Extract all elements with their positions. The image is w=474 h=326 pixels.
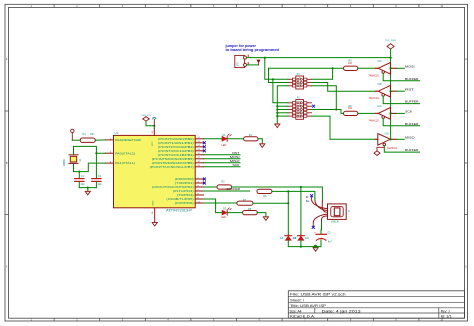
svg-text:BUFFER: BUFFER [227,187,241,191]
svg-text:Id: 1/1: Id: 1/1 [441,315,452,319]
svg-text:(RXD/PD0): (RXD/PD0) [175,177,194,181]
svg-text:MOSI: MOSI [230,155,240,159]
svg-text:(PCINT1/AIN1/PB1): (PCINT1/AIN1/PB1) [158,141,194,145]
svg-text:JP1: JP1 [237,61,240,66]
svg-text:LED: LED [221,216,226,219]
svg-text:(PCINT6/MISO/DO/PB6): (PCINT6/MISO/DO/PB6) [152,161,194,165]
svg-text:KiCad E.D.A.: KiCad E.D.A. [290,315,315,319]
svg-text:D-: D- [306,196,309,199]
svg-text:to board being programmed: to board being programmed [226,48,280,52]
svg-text:(PCINT3/OC1A/PB3): (PCINT3/OC1A/PB3) [158,149,194,153]
svg-text:MISO: MISO [230,159,240,163]
svg-text:U1D: U1D [384,132,389,135]
svg-text:BUFFER: BUFFER [405,77,419,81]
svg-text:C: C [465,265,467,268]
svg-text:MISO: MISO [405,136,415,140]
svg-text:Sheet: /: Sheet: / [290,298,305,302]
svg-text:SCK: SCK [405,110,413,114]
svg-text:U1B: U1B [377,83,382,86]
svg-text:(PCINT7/UCSK/SCL/PB7): (PCINT7/UCSK/SCL/PB7) [150,165,194,169]
svg-text:BUFFER: BUFFER [405,122,419,126]
svg-text:SCK: SCK [232,163,240,167]
svg-text:TGT_PWR: TGT_PWR [385,40,396,42]
svg-text:MOSI: MOSI [405,65,415,69]
svg-text:(INT1/PD3): (INT1/PD3) [173,189,194,193]
svg-text:U1C: U1C [377,105,382,108]
svg-text:jumper for power: jumper for power [224,44,256,48]
svg-text:ATTINY2313-P: ATTINY2313-P [166,208,192,212]
svg-text:Title: USB AVR ISP: Title: USB AVR ISP [290,304,326,308]
svg-text:Size: A4: Size: A4 [290,309,302,313]
svg-text:USB_B: USB_B [331,221,339,223]
svg-text:(PCINT4/OC1B/PB4): (PCINT4/OC1B/PB4) [158,153,194,157]
svg-text:10K: 10K [90,134,95,136]
svg-text:PA2(RESET)/dW: PA2(RESET)/dW [115,138,141,142]
svg-text:(PCINT2/OC0A/PB2): (PCINT2/OC0A/PB2) [158,145,194,149]
svg-text:Date: 4 jan 2013: Date: 4 jan 2013 [322,309,361,313]
svg-text:(ICP/PD6): (ICP/PD6) [175,201,194,205]
svg-text:BUFFER: BUFFER [405,100,419,104]
svg-text:LED: LED [222,144,227,147]
svg-text:(TXD/PD1): (TXD/PD1) [175,181,194,185]
svg-text:USB_5V0: USB_5V0 [141,115,151,117]
svg-text:(PCINT5/MOSI/DI/PB5): (PCINT5/MOSI/DI/PB5) [152,157,194,161]
svg-text:BUFFER: BUFFER [405,148,419,152]
svg-text:RST.: RST. [405,88,415,92]
svg-text:U3: U3 [115,131,119,135]
svg-text:(CKOUT/XCK/INT0/PD2): (CKOUT/XCK/INT0/PD2) [152,185,194,189]
svg-text:(PCINT0/AIN0/PB0): (PCINT0/AIN0/PB0) [158,137,194,141]
svg-text:12MHz: 12MHz [64,158,66,166]
svg-text:RST: RST [232,151,239,155]
svg-text:(T0/PD4): (T0/PD4) [177,193,194,197]
svg-text:File: USB AVR ISP v2.sch: File: USB AVR ISP v2.sch [290,293,346,297]
svg-text:(OC0B/T1/PD5): (OC0B/T1/PD5) [166,197,193,201]
svg-text:U1A: U1A [377,60,382,63]
svg-text:C: C [6,265,8,268]
svg-text:VCC: VCC [152,141,154,146]
svg-text:GND: GND [152,200,154,205]
svg-text:PA0(XTAL2): PA0(XTAL2) [115,151,135,155]
svg-text:Rev: J: Rev: J [441,309,450,313]
svg-text:PA1(XTAL1): PA1(XTAL1) [115,161,135,165]
